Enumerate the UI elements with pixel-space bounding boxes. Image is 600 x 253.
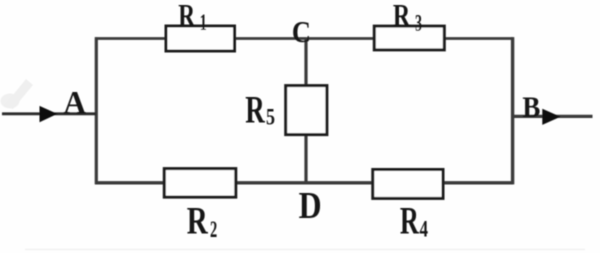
resistor R1 box xyxy=(166,26,235,51)
resistor R3 box xyxy=(374,26,444,50)
wire input lead at A xyxy=(2,112,96,115)
svg-text:1: 1 xyxy=(200,10,207,35)
wire right vertical xyxy=(511,37,514,184)
svg-text:R: R xyxy=(245,89,265,132)
svg-text:R: R xyxy=(400,200,420,243)
wire bottom horizontal xyxy=(95,181,513,184)
svg-text:3: 3 xyxy=(415,11,422,37)
scan smudge top-left xyxy=(1,94,20,109)
wire middle vertical C to D xyxy=(304,39,307,183)
svg-text:4: 4 xyxy=(420,216,429,241)
svg-text:R: R xyxy=(178,0,195,33)
wire output lead at B xyxy=(512,115,593,118)
wire left vertical xyxy=(95,37,98,184)
faint scan streak bottom xyxy=(25,249,585,251)
resistor R5 box xyxy=(286,86,327,135)
svg-text:A: A xyxy=(63,86,87,122)
svg-text:2: 2 xyxy=(210,217,217,242)
svg-text:C: C xyxy=(292,14,311,49)
arrowhead output xyxy=(542,109,560,125)
wire top horizontal xyxy=(95,37,513,40)
svg-text:5: 5 xyxy=(266,105,275,130)
arrowhead input xyxy=(40,106,58,122)
svg-text:B: B xyxy=(522,91,540,124)
svg-text:D: D xyxy=(299,185,322,227)
svg-text:R: R xyxy=(187,200,209,243)
resistor R4 box xyxy=(373,170,443,199)
svg-text:R: R xyxy=(393,0,411,33)
resistor R2 box xyxy=(164,169,236,198)
